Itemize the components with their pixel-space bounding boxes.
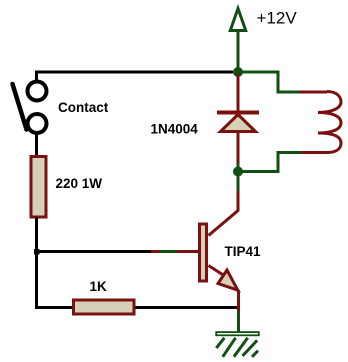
power +12V symbol — [230, 9, 245, 70]
svg-text:Contact: Contact — [58, 100, 109, 115]
wire: relay coil bottom to node B (green) — [240, 153, 302, 172]
wire: relay coil top lead (red) — [300, 91, 327, 94]
wire: bottom net to emitter (black) — [37, 306, 239, 309]
node C junction dot — [34, 249, 40, 255]
diode D1 1N4004 — [217, 113, 259, 132]
node B junction dot — [233, 167, 243, 177]
wire: resistor R1 to node C (black) — [35, 217, 38, 252]
svg-text:1K: 1K — [90, 279, 108, 294]
wire: relay coil bottom lead (red) — [301, 151, 327, 154]
wire: switch top to node A (black net) — [35, 72, 233, 82]
resistor R1 220 1W — [31, 157, 46, 218]
transistor Q1 TIP41 — [200, 224, 239, 311]
switch S1 Contact — [13, 82, 47, 134]
wire: node A to relay coil top (green) — [238, 72, 301, 92]
diode D1 bottom lead (red) — [237, 133, 240, 164]
node A junction dot — [233, 67, 243, 77]
wire: emitter to ground (green) — [237, 311, 240, 332]
wire: diode to node B (green) — [237, 163, 240, 192]
diode D1 top lead (red) — [237, 74, 240, 112]
svg-text:220 1W: 220 1W — [56, 176, 103, 191]
wire: node C to transistor base (black/green/red segments) — [37, 250, 200, 253]
svg-text:TIP41: TIP41 — [225, 244, 262, 259]
relay coil L1 — [318, 92, 341, 153]
wire: switch bottom to resistor R1 (black) — [35, 134, 38, 156]
wire: node B to transistor collector (red) — [209, 191, 239, 236]
ground — [216, 332, 259, 357]
svg-text:+12V: +12V — [257, 9, 298, 28]
svg-text:1N4004: 1N4004 — [151, 122, 199, 137]
resistor R2 1K — [74, 300, 135, 314]
wire: node C down to bottom net (black) — [35, 252, 38, 310]
